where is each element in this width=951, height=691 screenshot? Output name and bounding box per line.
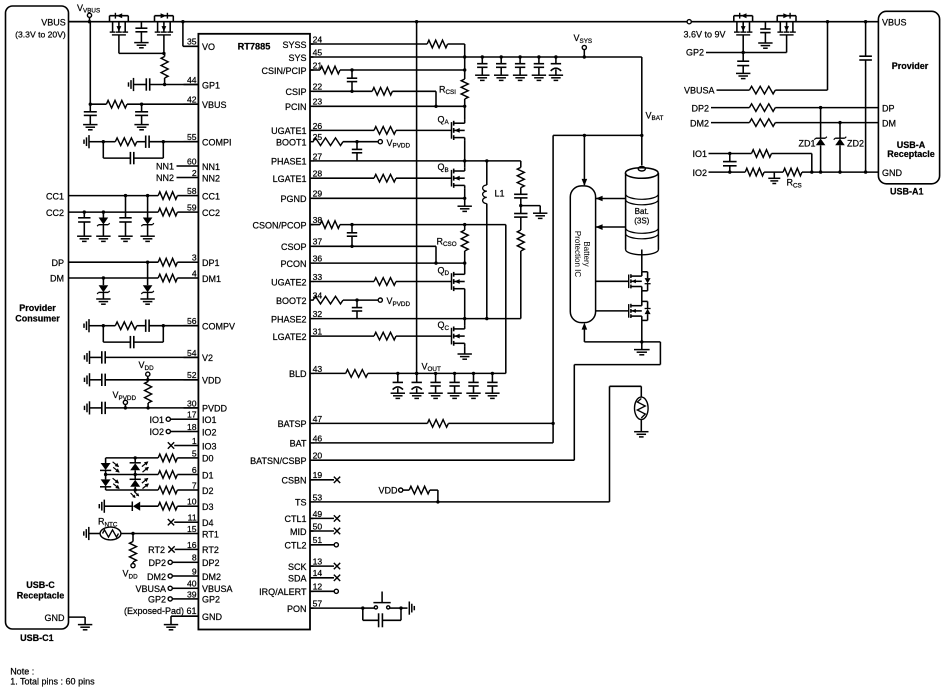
svg-text:55: 55 <box>187 132 197 142</box>
svg-text:CTL2: CTL2 <box>284 541 306 551</box>
svg-text:GP2: GP2 <box>686 48 704 58</box>
svg-text:MID: MID <box>290 527 307 537</box>
svg-text:22: 22 <box>313 82 323 92</box>
svg-text:36: 36 <box>313 254 323 264</box>
svg-text:3.6V to 9V: 3.6V to 9V <box>684 30 726 40</box>
svg-text:5: 5 <box>192 448 197 458</box>
svg-text:35: 35 <box>187 37 197 47</box>
svg-text:CSON/PCOP: CSON/PCOP <box>252 220 306 230</box>
svg-text:40: 40 <box>187 579 197 589</box>
svg-text:D0: D0 <box>202 454 214 464</box>
svg-text:NN1: NN1 <box>202 162 220 172</box>
svg-text:VBUS: VBUS <box>202 100 227 110</box>
svg-text:DP2: DP2 <box>202 558 220 568</box>
svg-text:VBUSA: VBUSA <box>135 584 166 594</box>
svg-text:RT2: RT2 <box>148 545 165 555</box>
svg-text:44: 44 <box>187 75 197 85</box>
svg-text:RT1: RT1 <box>202 529 219 539</box>
svg-text:(Exposed-Pad) 61: (Exposed-Pad) 61 <box>124 606 197 616</box>
svg-text:51: 51 <box>313 535 323 545</box>
svg-text:46: 46 <box>313 433 323 443</box>
svg-text:GND: GND <box>882 168 903 178</box>
svg-text:SYS: SYS <box>288 53 306 63</box>
svg-text:1: 1 <box>192 436 197 446</box>
svg-text:BOOT2: BOOT2 <box>276 296 307 306</box>
svg-text:CC2: CC2 <box>202 208 220 218</box>
svg-text:23: 23 <box>313 97 323 107</box>
svg-text:8: 8 <box>192 553 197 563</box>
svg-text:Provider: Provider <box>892 61 929 71</box>
svg-text:CC2: CC2 <box>46 208 64 218</box>
svg-text:50: 50 <box>313 521 323 531</box>
svg-text:BAT: BAT <box>290 439 307 449</box>
svg-text:PGND: PGND <box>280 194 307 204</box>
svg-text:29: 29 <box>313 189 323 199</box>
svg-text:GND: GND <box>202 612 223 622</box>
svg-text:12: 12 <box>313 582 323 592</box>
svg-text:11: 11 <box>188 513 197 523</box>
svg-text:SYSS: SYSS <box>282 40 306 50</box>
svg-text:(3S): (3S) <box>634 216 649 225</box>
svg-text:DP: DP <box>51 258 64 268</box>
svg-text:IO1: IO1 <box>692 149 707 159</box>
svg-text:DP: DP <box>882 103 895 113</box>
svg-text:CSIN/PCIP: CSIN/PCIP <box>261 66 306 76</box>
svg-text:28: 28 <box>313 169 323 179</box>
svg-text:COMPV: COMPV <box>202 322 235 332</box>
svg-text:16: 16 <box>187 540 197 550</box>
svg-text:IO3: IO3 <box>202 441 217 451</box>
svg-text:4: 4 <box>192 268 197 278</box>
svg-text:(3.3V to 20V): (3.3V to 20V) <box>15 29 66 39</box>
svg-text:32: 32 <box>313 309 323 319</box>
svg-text:52: 52 <box>187 370 197 380</box>
svg-text:LGATE2: LGATE2 <box>273 332 307 342</box>
svg-text:UGATE2: UGATE2 <box>271 277 306 287</box>
svg-text:Bat.: Bat. <box>635 207 649 216</box>
svg-text:DM2: DM2 <box>690 118 709 128</box>
svg-text:VBUSA: VBUSA <box>684 86 715 96</box>
svg-text:SCK: SCK <box>288 562 307 572</box>
svg-text:Receptacle: Receptacle <box>887 149 935 159</box>
svg-text:60: 60 <box>187 156 197 166</box>
svg-text:47: 47 <box>313 414 323 424</box>
svg-text:45: 45 <box>313 47 323 57</box>
svg-text:CSOP: CSOP <box>281 242 307 252</box>
svg-text:GP2: GP2 <box>148 595 166 605</box>
svg-text:9: 9 <box>192 566 197 576</box>
svg-text:TS: TS <box>295 498 307 508</box>
svg-text:59: 59 <box>187 203 197 213</box>
svg-text:VBUS: VBUS <box>882 18 907 28</box>
svg-text:BOOT1: BOOT1 <box>276 138 307 148</box>
svg-text:DP2: DP2 <box>148 558 166 568</box>
svg-text:BLD: BLD <box>289 369 307 379</box>
svg-text:SDA: SDA <box>288 574 307 584</box>
svg-text:PHASE2: PHASE2 <box>271 314 307 324</box>
svg-text:USB-A1: USB-A1 <box>890 186 924 196</box>
svg-text:NN1: NN1 <box>156 162 174 172</box>
svg-text:D4: D4 <box>202 518 214 528</box>
svg-text:DP1: DP1 <box>202 258 220 268</box>
svg-text:18: 18 <box>187 422 197 432</box>
svg-text:PON: PON <box>287 604 307 614</box>
svg-text:43: 43 <box>313 364 323 374</box>
svg-text:NN2: NN2 <box>202 173 220 183</box>
svg-text:L1: L1 <box>495 189 505 199</box>
svg-text:NN2: NN2 <box>156 173 174 183</box>
svg-text:15: 15 <box>187 524 197 534</box>
svg-text:30: 30 <box>187 398 197 408</box>
svg-text:USB-C1: USB-C1 <box>20 633 54 643</box>
svg-text:USB-C: USB-C <box>26 580 55 590</box>
svg-text:3: 3 <box>192 253 197 263</box>
svg-text:D2: D2 <box>202 486 214 496</box>
svg-text:IO2: IO2 <box>202 427 217 437</box>
svg-text:DP2: DP2 <box>691 103 709 113</box>
svg-text:DM1: DM1 <box>202 274 221 284</box>
svg-text:17: 17 <box>187 410 197 420</box>
svg-text:CC1: CC1 <box>46 191 64 201</box>
svg-text:56: 56 <box>187 316 197 326</box>
svg-text:DM: DM <box>50 274 64 284</box>
svg-text:2: 2 <box>192 168 197 178</box>
svg-text:VBUSA: VBUSA <box>202 584 233 594</box>
svg-text:D1: D1 <box>202 470 214 480</box>
svg-text:57: 57 <box>313 599 323 609</box>
svg-text:VDD: VDD <box>202 376 222 386</box>
svg-text:14: 14 <box>313 568 323 578</box>
svg-text:1. Total pins : 60 pins: 1. Total pins : 60 pins <box>10 677 95 687</box>
svg-text:Receptacle: Receptacle <box>17 590 65 600</box>
svg-text:VO: VO <box>202 42 215 52</box>
svg-text:33: 33 <box>313 272 323 282</box>
svg-text:IO2: IO2 <box>692 168 707 178</box>
svg-text:CC1: CC1 <box>202 191 220 201</box>
svg-text:DM2: DM2 <box>202 572 221 582</box>
svg-text:ZD1: ZD1 <box>798 138 815 148</box>
svg-text:CSBN: CSBN <box>281 476 306 486</box>
svg-text:53: 53 <box>313 492 323 502</box>
svg-text:37: 37 <box>313 237 323 247</box>
svg-text:19: 19 <box>313 470 323 480</box>
svg-text:DM: DM <box>882 118 896 128</box>
svg-text:Consumer: Consumer <box>15 314 60 324</box>
svg-text:Provider: Provider <box>19 303 56 313</box>
svg-text:27: 27 <box>313 151 323 161</box>
svg-text:GP2: GP2 <box>202 595 220 605</box>
svg-text:DM2: DM2 <box>147 572 166 582</box>
svg-text:UGATE1: UGATE1 <box>271 126 306 136</box>
svg-text:GP1: GP1 <box>202 80 220 90</box>
svg-text:RT7885: RT7885 <box>238 42 271 52</box>
svg-text:CSIP: CSIP <box>285 87 306 97</box>
svg-text:V2: V2 <box>202 353 213 363</box>
svg-text:54: 54 <box>187 348 197 358</box>
svg-text:LGATE1: LGATE1 <box>273 174 307 184</box>
svg-text:26: 26 <box>313 121 323 131</box>
svg-text:GND: GND <box>45 613 66 623</box>
svg-text:VDD: VDD <box>378 485 398 495</box>
svg-text:ZD2: ZD2 <box>847 138 864 148</box>
svg-text:BATSN/CSBP: BATSN/CSBP <box>250 456 306 466</box>
svg-text:7: 7 <box>192 480 197 490</box>
svg-text:IO1: IO1 <box>149 415 164 425</box>
svg-text:VBUS: VBUS <box>41 17 66 27</box>
svg-text:CTL1: CTL1 <box>284 514 306 524</box>
svg-text:BATSP: BATSP <box>278 419 307 429</box>
svg-text:Note :: Note : <box>10 666 34 676</box>
svg-text:PVDD: PVDD <box>202 404 228 414</box>
svg-text:D3: D3 <box>202 502 214 512</box>
svg-text:COMPI: COMPI <box>202 138 232 148</box>
svg-text:IO2: IO2 <box>149 427 164 437</box>
svg-text:IO1: IO1 <box>202 415 217 425</box>
svg-text:42: 42 <box>187 95 197 105</box>
svg-text:20: 20 <box>313 451 323 461</box>
svg-text:PCIN: PCIN <box>285 102 307 112</box>
svg-text:IRQ/ALERT: IRQ/ALERT <box>259 587 307 597</box>
svg-text:13: 13 <box>313 557 323 567</box>
svg-text:39: 39 <box>187 589 197 599</box>
svg-text:58: 58 <box>187 186 197 196</box>
svg-text:24: 24 <box>313 34 323 44</box>
svg-text:49: 49 <box>313 509 323 519</box>
svg-text:PHASE1: PHASE1 <box>271 157 307 167</box>
svg-text:PCON: PCON <box>280 259 306 269</box>
svg-text:6: 6 <box>192 465 197 475</box>
svg-text:10: 10 <box>187 497 197 507</box>
svg-text:RT2: RT2 <box>202 545 219 555</box>
svg-text:31: 31 <box>313 327 323 337</box>
